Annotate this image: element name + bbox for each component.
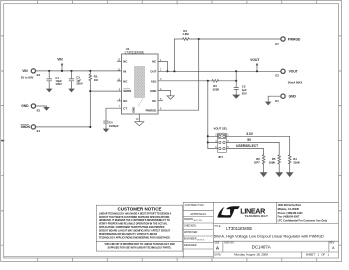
svg-text:1630 McCarthy Blvd.: 1630 McCarthy Blvd. (278, 204, 302, 207)
IC U1 LT3011EMSE regulator (122, 47, 159, 114)
ground (E5) (43, 107, 50, 111)
svg-text:523K: 523K (213, 88, 220, 92)
wire E1 to R2 (35, 126, 90, 128)
svg-text:TITLE:: TITLE: (214, 226, 221, 228)
pin 1 hook to OUT (158, 62, 168, 72)
pin 8 stub (117, 100, 121, 102)
resistor R5 169K (269, 155, 281, 173)
svg-text:NC: NC (123, 59, 127, 63)
node VIN arrow (57, 57, 63, 71)
wire up to R1 rail (173, 39, 175, 71)
svg-text:DATE:: DATE: (214, 254, 221, 257)
svg-text:VERIFY PROPER AND RELIABLE OPE: VERIFY PROPER AND RELIABLE OPERATION IN … (99, 223, 168, 226)
svg-text:ANTONIO: ANTONIO (194, 219, 203, 222)
svg-text:DESIGNER: DESIGNER (184, 244, 197, 247)
wire OUT to C2 (235, 71, 237, 87)
wire JP1 pin5 net USERSELECT (226, 149, 263, 155)
svg-text:PERFORMANCE OR RELIABILITY. C: PERFORMANCE OR RELIABILITY. CONTACT LINE… (99, 233, 157, 236)
ground (C2) (232, 95, 240, 99)
svg-text:DWG NO.: DWG NO. (224, 243, 235, 245)
pin 13 pad stub (138, 114, 140, 122)
svg-text:THIS CIRCUIT IS PROPRIETARY TO: THIS CIRCUIT IS PROPRIETARY TO LINEAR TE… (104, 243, 175, 246)
resistor R2 (89, 71, 98, 91)
svg-text:NC: NC (123, 79, 127, 83)
svg-text:DRAWN:: DRAWN: (184, 218, 194, 221)
svg-text:ADJ: ADJ (151, 79, 157, 83)
svg-text:KEVIN B.: KEVIN B. (197, 239, 205, 241)
svg-text:JP1: JP1 (218, 155, 223, 159)
svg-text:LINEAR TECHNOLOGY HAS MADE A B: LINEAR TECHNOLOGY HAS MADE A BEST EFFORT… (99, 212, 172, 215)
wire JP1 left stubs (208, 136, 218, 148)
svg-text:Phone: (408)432-1900: Phone: (408)432-1900 (278, 212, 304, 215)
wire SHDN pin (90, 90, 121, 92)
svg-text:100V: 100V (55, 82, 62, 86)
connector E4 (GND) (275, 94, 296, 103)
svg-text:E5: E5 (37, 108, 41, 112)
svg-text:50mA, High Voltage Low Dropout: 50mA, High Voltage Low Dropout Linear Re… (214, 235, 324, 239)
address (278, 204, 328, 223)
svg-text:VIN: VIN (22, 69, 28, 73)
exposed pad (135, 67, 145, 98)
svg-text:APPLICATION. COMPONENT SUBSTI: APPLICATION. COMPONENT SUBSTITUTION AND … (99, 226, 165, 229)
svg-text:IN: IN (123, 70, 126, 74)
svg-text:1.6M: 1.6M (182, 32, 189, 36)
size/dwg/rev row (213, 240, 338, 242)
wire ADJ to JP1 bus (207, 81, 209, 149)
svg-text:LT3011EMSE: LT3011EMSE (226, 226, 252, 231)
logo Linear Technology (217, 206, 268, 218)
ground (pad pin 13) (135, 122, 144, 126)
pin 10 stub (117, 80, 121, 82)
svg-text:VOUT: VOUT (289, 70, 298, 74)
resistor R4 316K (288, 155, 299, 173)
wire E5 to ground (35, 106, 46, 107)
customer notice box (96, 205, 182, 251)
svg-text:PWRGD: PWRGD (288, 37, 301, 41)
svg-text:316K: 316K (293, 161, 300, 165)
svg-text:APPROVED:: APPROVED: (184, 231, 198, 234)
connector E2 (VIN input) (21, 69, 41, 80)
svg-text:TECHNOLOGY: TECHNOLOGY (245, 214, 269, 218)
svg-text:GND: GND (150, 89, 156, 93)
svg-text:1000pF: 1000pF (109, 124, 119, 128)
svg-text:SIZE: SIZE (214, 243, 220, 245)
pin 5 stub (158, 100, 163, 102)
svg-text:CUSTOMER NOTICE: CUSTOMER NOTICE (118, 206, 162, 211)
svg-text:Fax: (408)434-0507: Fax: (408)434-0507 (278, 216, 300, 219)
svg-text:E1: E1 (37, 129, 41, 133)
svg-text:SUPPLIED FOR USE WITH LINEAR T: SUPPLIED FOR USE WITH LINEAR TECHNOLOGY … (108, 247, 172, 250)
svg-text:GND: GND (289, 94, 297, 98)
svg-text:E7: E7 (275, 42, 279, 46)
ground (R5) (275, 172, 283, 177)
svg-text:50mA MAX: 50mA MAX (288, 80, 303, 84)
connector E7 (PWRGD) (275, 37, 301, 46)
ground (E4) (265, 102, 272, 106)
junction dots on VIN rail (48, 70, 50, 72)
ground (C1) (46, 89, 53, 93)
capacitor C2 (234, 85, 247, 96)
logo + address cells (213, 201, 338, 203)
bottom ruler strip (4, 255, 214, 257)
wire GND pin 4 (158, 91, 171, 96)
svg-text:LT3011EMSE: LT3011EMSE (125, 50, 144, 54)
connector E3 (VOUT) (275, 69, 302, 84)
wire CT pin to C4 (106, 108, 122, 121)
svg-text:SHEET 1 OF 1: SHEET 1 OF 1 (306, 253, 330, 257)
svg-text:169K: 169K (269, 161, 276, 165)
resistor R3 (212, 80, 236, 92)
svg-text:Monday, August 18, 2008: Monday, August 18, 2008 (234, 253, 268, 257)
svg-text:GND: GND (21, 104, 29, 108)
svg-text:USERSELECT: USERSELECT (236, 144, 258, 148)
ground (R4) (286, 172, 294, 177)
svg-text:TECHNOLOGY APPLICATIONS ENGINE: TECHNOLOGY APPLICATIONS ENGINEERING FOR … (99, 236, 171, 239)
svg-text:3V to 80V: 3V to 80V (21, 76, 34, 80)
svg-text:CIRCUIT THAT MEETS CUSTOMER-SU: CIRCUIT THAT MEETS CUSTOMER-SUPPLIED SPE… (99, 216, 170, 219)
date row (213, 251, 338, 253)
pin 12 stub (117, 60, 121, 62)
wire E4 to ground (268, 96, 281, 101)
svg-text:HOWEVER, IT REMAINS THE CUSTOM: HOWEVER, IT REMAINS THE CUSTOMER'S RESPO… (99, 219, 170, 222)
wire ADJ line (158, 80, 212, 82)
resistor R1 (174, 29, 281, 41)
svg-text:ENGINEER: ENGINEER (184, 237, 197, 240)
connector E1 (SHDN) (21, 125, 41, 134)
svg-text:VOUT: VOUT (250, 58, 259, 62)
svg-text:E3: E3 (275, 73, 279, 77)
svg-text:E4: E4 (275, 99, 279, 103)
approvals column (183, 201, 213, 203)
svg-text:Milpitas, CA 95035: Milpitas, CA 95035 (278, 208, 300, 211)
ground (pin 4) (167, 96, 174, 99)
capacitor C4 (104, 121, 119, 129)
wire VIN rail (35, 70, 121, 72)
svg-text:E2: E2 (37, 73, 41, 77)
wire JP1 pin1 net 3.3V (226, 136, 289, 155)
svg-text:1M: 1M (94, 78, 99, 82)
wire JP1 pin3 net 5V (226, 142, 279, 154)
connector E5 (GND) (21, 104, 40, 112)
svg-text:100V: 100V (76, 82, 83, 86)
svg-text:APPROVALS: APPROVALS (190, 212, 206, 216)
svg-text:NC: NC (152, 99, 156, 103)
svg-text:SHDN: SHDN (123, 89, 131, 93)
svg-text:CONTRACT NO.: CONTRACT NO. (185, 203, 205, 207)
ground (R6) (260, 172, 268, 177)
svg-text:SHDN: SHDN (21, 125, 31, 129)
svg-text:REV: REV (330, 242, 335, 244)
ground (C4) (103, 129, 110, 133)
svg-text:NC: NC (152, 59, 156, 63)
svg-text:VOUT SEL: VOUT SEL (214, 126, 228, 130)
svg-text:OPT: OPT (254, 161, 260, 165)
svg-text:3.3V: 3.3V (246, 132, 254, 136)
capacitor C3 (69, 71, 83, 89)
svg-text:LTC Confidential-For Customer: LTC Confidential-For Customer Use Only (278, 219, 328, 223)
shunt on pins 1-2 (218, 134, 226, 138)
svg-text:CIRCUIT BOARD LAYOUT MAY SIGNI: CIRCUIT BOARD LAYOUT MAY SIGNIFICANTLY A… (99, 230, 171, 233)
svg-text:DC1407A: DC1407A (252, 244, 271, 249)
node VOUT arrow (250, 58, 259, 72)
svg-text:VIN: VIN (57, 57, 63, 61)
svg-text:GND: GND (132, 107, 136, 113)
svg-text:20V: 20V (242, 91, 247, 95)
wire R2 to E1 (89, 91, 91, 127)
resistor R6 OPT (254, 155, 265, 173)
svg-text:CHECKED:: CHECKED: (184, 224, 197, 227)
wire OUT rail (158, 70, 281, 72)
svg-text:OUT: OUT (150, 70, 156, 74)
wire PWRGD pin to rail (158, 39, 199, 110)
svg-text:PWRGD: PWRGD (146, 108, 157, 112)
jumper JP1 VOUT SEL (214, 126, 230, 159)
capacitor C1 (47, 71, 62, 89)
svg-text:CT: CT (123, 106, 127, 110)
ground (C3) (68, 89, 75, 93)
svg-text:NC: NC (123, 99, 127, 103)
